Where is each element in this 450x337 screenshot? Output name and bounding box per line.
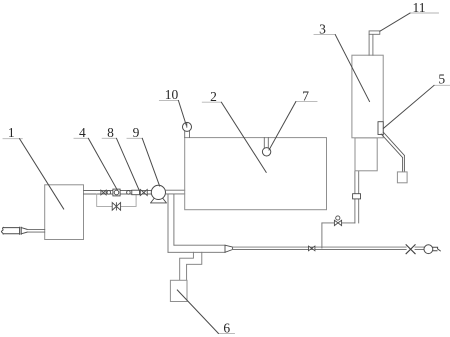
bypass loop bbox=[97, 194, 136, 206]
svg-text:5: 5 bbox=[438, 72, 445, 87]
duct down from discharge bbox=[168, 194, 174, 252]
duct horizontal run bbox=[168, 245, 225, 252]
leader 9 bbox=[142, 138, 159, 186]
drain fitting square bbox=[353, 194, 361, 199]
gauge 10 stub bbox=[185, 131, 190, 137]
leader 1 bbox=[20, 139, 64, 209]
svg-text:10: 10 bbox=[165, 87, 179, 102]
leader 8 bbox=[117, 138, 140, 191]
tank 2 bbox=[185, 138, 327, 210]
leader 10 bbox=[178, 101, 186, 126]
chimney cap bbox=[369, 31, 380, 34]
leader 2 bbox=[221, 102, 266, 172]
outlet rect 5 bbox=[378, 122, 383, 135]
box 6 bbox=[170, 280, 187, 301]
collector square bbox=[397, 172, 407, 183]
drain from stripper bbox=[355, 171, 359, 223]
flow meter 4 bbox=[113, 189, 120, 196]
sensor 7 stub bbox=[264, 138, 268, 148]
inlet thin pipe into tank 1 bbox=[27, 229, 45, 232]
leader 4 bbox=[88, 138, 117, 190]
leader 3 bbox=[335, 35, 369, 102]
gauge 10 needle bbox=[186, 123, 188, 127]
suction pipe tank1 to pump bbox=[84, 191, 152, 195]
small circle b bbox=[127, 191, 131, 195]
valve (bottom left) bbox=[309, 246, 315, 251]
control valve actuator bbox=[336, 216, 340, 220]
svg-text:1: 1 bbox=[8, 125, 15, 140]
thin bottom pipe bbox=[233, 247, 425, 249]
bypass valve bbox=[112, 203, 120, 211]
hose from 5 bbox=[381, 132, 404, 172]
inlet hose taper bbox=[21, 228, 27, 234]
branch to box 6 bbox=[180, 252, 202, 280]
sensor 7 bbox=[262, 148, 270, 156]
inlet hose break squiggle bbox=[1, 227, 3, 234]
pump 9 bbox=[151, 185, 165, 199]
tower 3 bbox=[352, 55, 383, 138]
leader 11 bbox=[380, 13, 410, 31]
leader 5 bbox=[383, 85, 434, 128]
discharge pipe pump to tank 2 bbox=[166, 190, 185, 194]
check valve bbox=[101, 190, 106, 195]
inlet hose collar bbox=[20, 227, 22, 234]
inlet hose tube bbox=[3, 228, 19, 234]
svg-text:7: 7 bbox=[302, 88, 309, 103]
gauge 10 bbox=[183, 122, 192, 131]
valve line bbox=[322, 222, 355, 224]
tank 1 bbox=[45, 185, 84, 240]
stripper lower box bbox=[355, 138, 377, 171]
valve 8 bbox=[140, 190, 147, 196]
chimney 11 bbox=[369, 34, 373, 55]
pump 9 base bbox=[151, 198, 167, 203]
union rect bbox=[132, 190, 140, 195]
outlet squiggle bbox=[433, 247, 441, 251]
leader 7 bbox=[269, 102, 296, 150]
riser bbox=[321, 223, 323, 248]
leader 6 bbox=[177, 290, 218, 333]
small circle a bbox=[107, 191, 111, 195]
control valve bbox=[334, 220, 341, 225]
outlet meter circle bbox=[424, 245, 433, 254]
reducer nozzle bbox=[225, 245, 233, 252]
closed valve (X) bbox=[407, 246, 415, 251]
